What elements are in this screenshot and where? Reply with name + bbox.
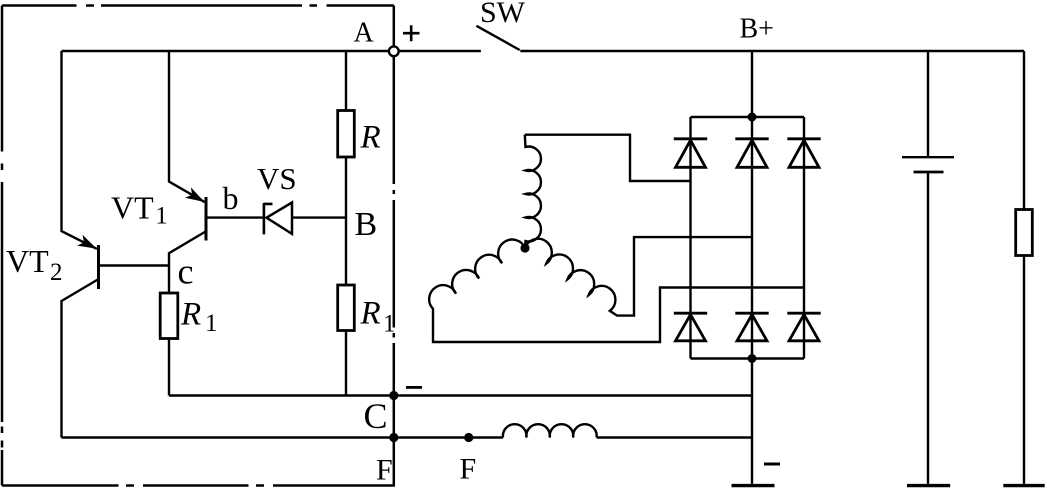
svg-text:1: 1 [205, 310, 218, 337]
svg-text:2: 2 [50, 259, 63, 286]
svg-text:B: B [355, 206, 378, 243]
svg-text:SW: SW [480, 0, 526, 29]
svg-text:F: F [460, 453, 477, 486]
svg-text:VT: VT [111, 189, 154, 225]
svg-text:1: 1 [383, 311, 396, 338]
svg-text:R: R [360, 296, 381, 332]
svg-text:VT: VT [6, 243, 49, 279]
svg-text:F: F [376, 454, 393, 487]
svg-text:b: b [223, 180, 239, 216]
svg-text:A: A [354, 18, 375, 49]
svg-text:c: c [178, 252, 194, 292]
svg-text:R: R [360, 120, 381, 156]
svg-text:C: C [364, 396, 388, 436]
svg-text:1: 1 [155, 203, 168, 230]
svg-text:R: R [180, 297, 201, 333]
svg-text:B+: B+ [740, 14, 774, 45]
svg-text:VS: VS [257, 161, 297, 196]
